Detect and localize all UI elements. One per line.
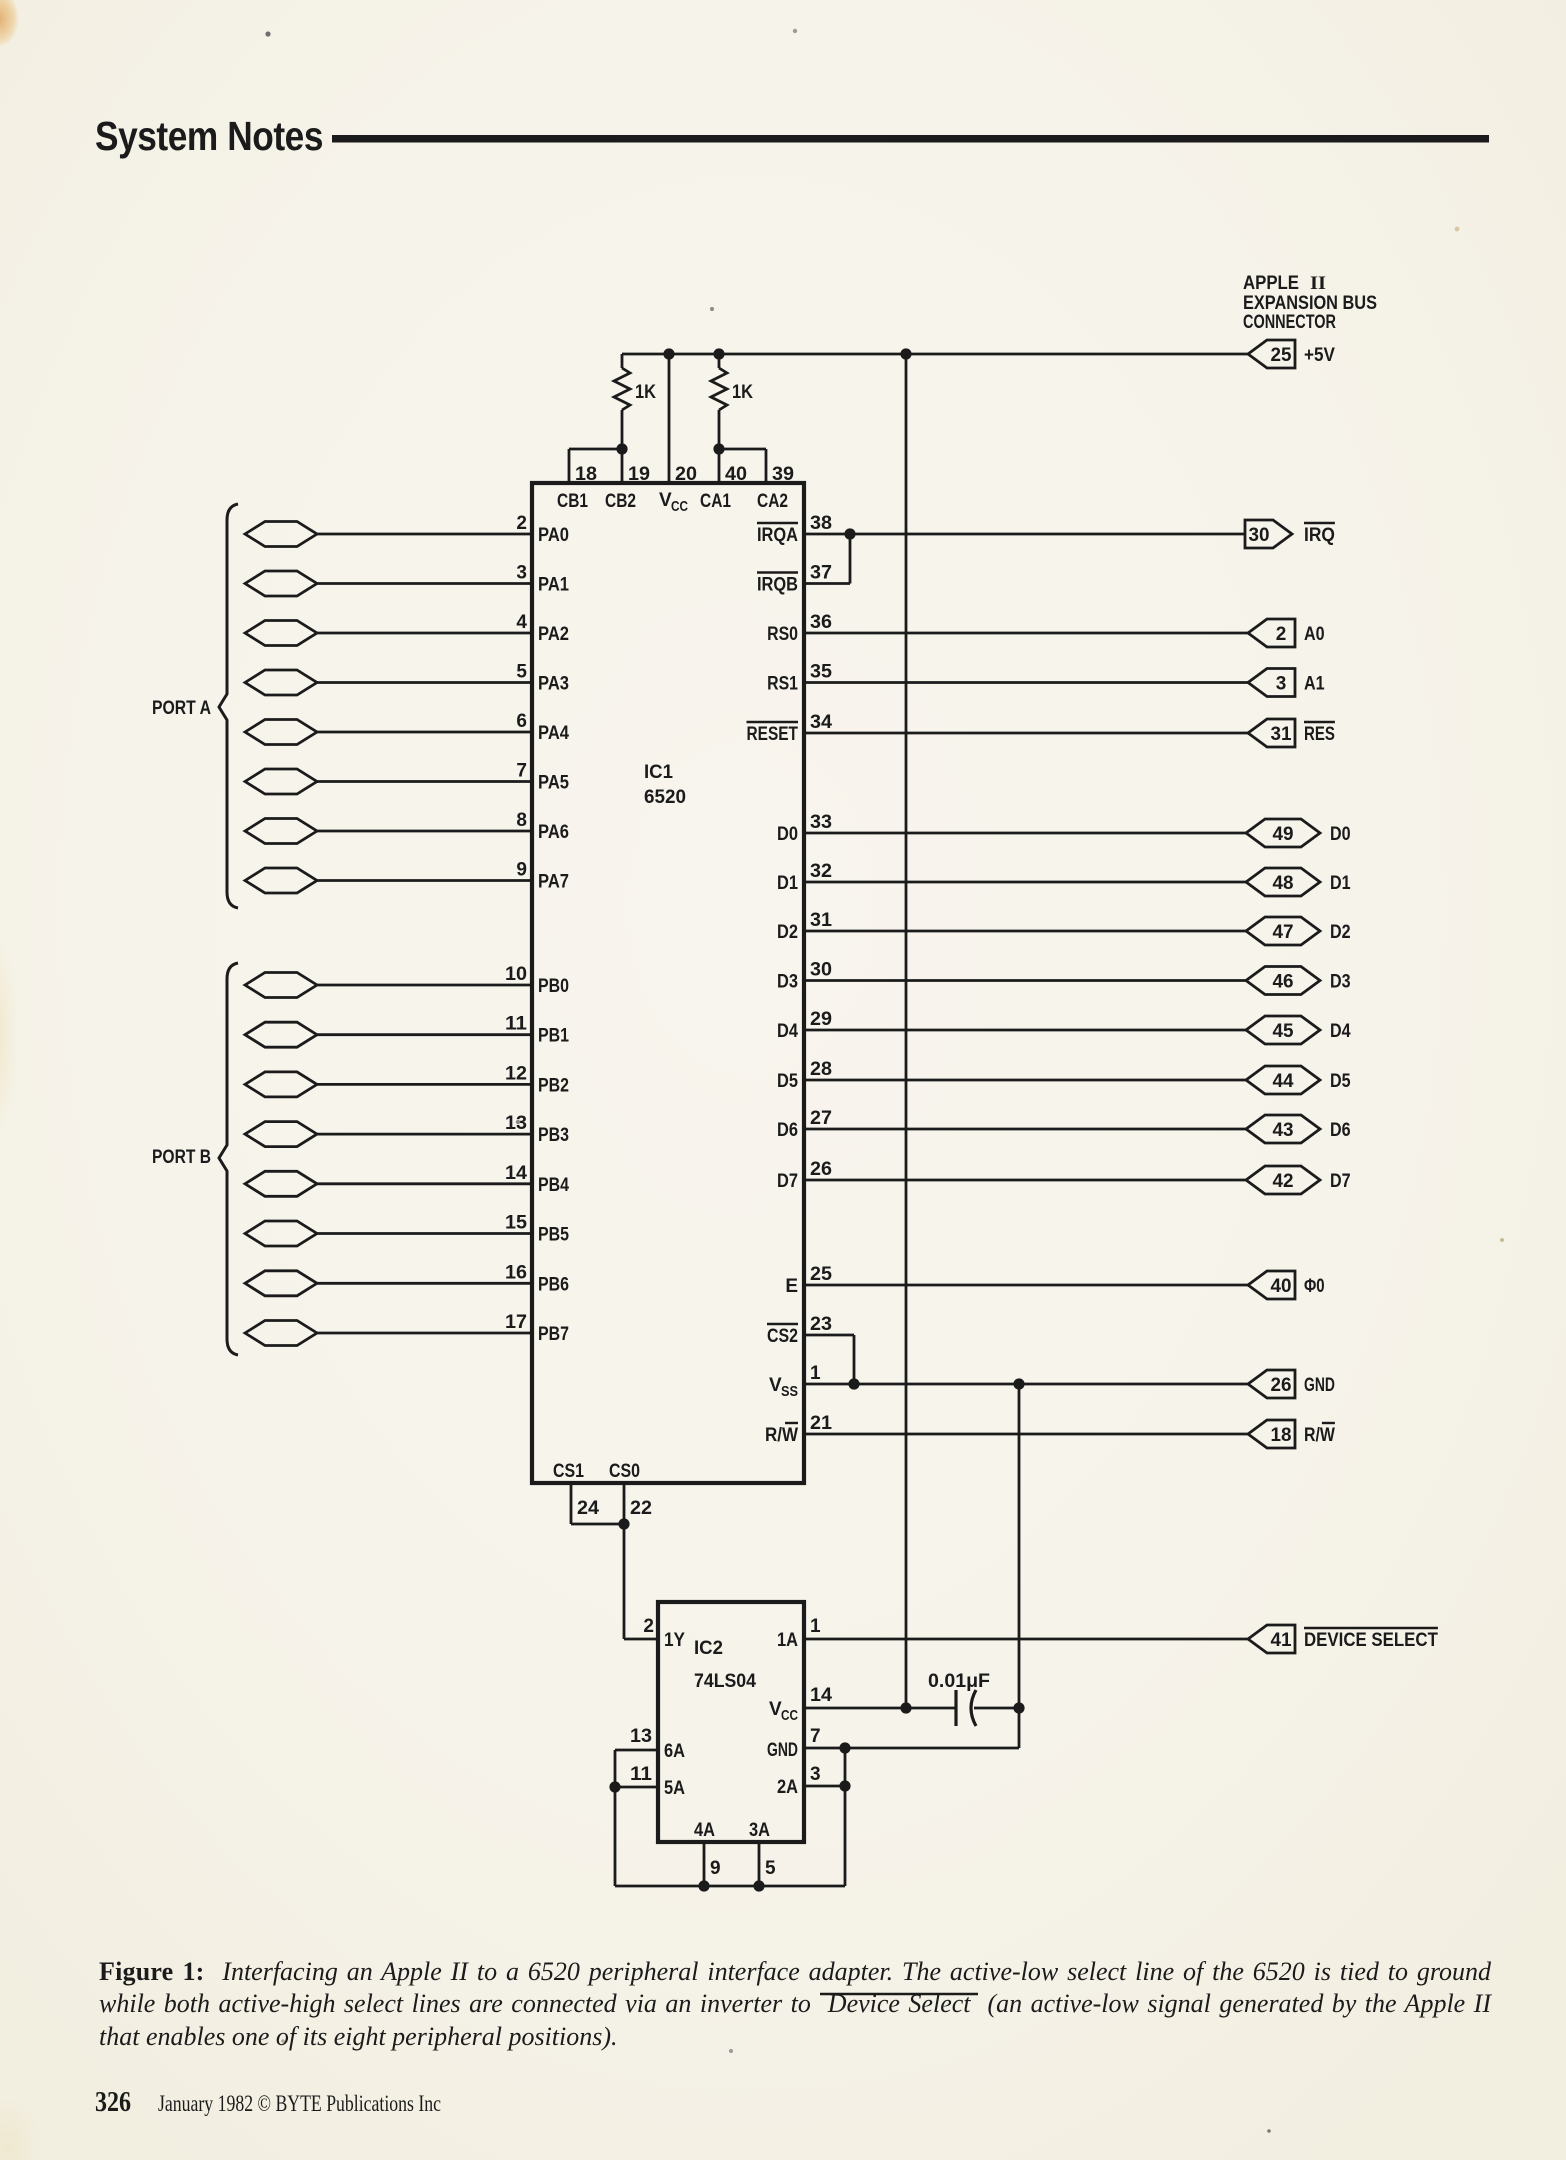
wire CS1-CS0 link (571, 1523, 624, 1526)
pin label 5A (664, 1778, 685, 1799)
svg-text:R/W: R/W (765, 1425, 798, 1446)
svg-text:46: 46 (1273, 972, 1294, 993)
svg-text:18: 18 (575, 464, 597, 485)
svg-text:5A: 5A (664, 1778, 685, 1799)
pin label PA1 (538, 575, 569, 596)
pin 9 stub (704, 1842, 721, 1886)
node GND/2A vertical junction (839, 1742, 850, 1753)
capacitor C 0.01uF (928, 1671, 1019, 1726)
pin label PA7 (538, 872, 569, 893)
svg-text:26: 26 (810, 1159, 832, 1180)
svg-text:3: 3 (1276, 674, 1287, 695)
svg-text:PB6: PB6 (538, 1274, 569, 1295)
pin 30 number (810, 960, 832, 981)
wire: right ground vertical (844, 1748, 847, 1886)
wire pin 23 CS2 to Vss (804, 1335, 854, 1384)
connector hexagon PA7 (245, 868, 317, 893)
pin label PB6 (538, 1274, 569, 1295)
connector hexagon PB4 (245, 1171, 317, 1196)
connector hexagon PB1 (245, 1022, 317, 1047)
connector 30 IRQ (expansion bus) (1245, 520, 1292, 548)
net label DEVICE SELECT (1304, 1628, 1438, 1651)
pin 8 number (516, 810, 527, 831)
svg-text:1K: 1K (635, 382, 656, 403)
svg-text:APPLE: APPLE (1243, 273, 1299, 294)
wire pin 11 5A (615, 1786, 658, 1789)
pin 1 number (810, 1616, 821, 1637)
pin label RESET (747, 722, 799, 745)
svg-text:E: E (785, 1276, 798, 1297)
svg-text:11: 11 (630, 1764, 652, 1785)
connector hexagon PA3 (245, 670, 317, 695)
pin label PB3 (538, 1125, 569, 1146)
node 4A junction (698, 1880, 709, 1891)
wire pin 26 D7 (804, 1179, 1246, 1182)
connector hexagon PA4 (245, 720, 317, 745)
node CS link junction (618, 1518, 629, 1529)
pin 3 number (516, 563, 527, 584)
pin 31 number (810, 910, 832, 931)
svg-text:RES: RES (1304, 724, 1335, 745)
pin 29 number (810, 1009, 832, 1030)
wire pin 31 D2 (804, 930, 1246, 933)
pin label PB2 (538, 1075, 569, 1096)
wire PA5 pin 7 (317, 780, 532, 783)
connector hexagon PA2 (245, 621, 317, 646)
connector 48 D1 (expansion bus) (1246, 868, 1320, 896)
svg-text:27: 27 (810, 1108, 832, 1129)
brace PORT A (219, 504, 238, 908)
svg-text:D2: D2 (1330, 922, 1351, 943)
pin 13 number (630, 1726, 652, 1747)
wire pin 33 D0 (804, 832, 1246, 835)
pin label D7 (777, 1171, 798, 1192)
net label Φ0 (1304, 1276, 1325, 1297)
pin label PB4 (538, 1175, 569, 1196)
pin label PB7 (538, 1324, 569, 1345)
svg-text:DEVICE SELECT: DEVICE SELECT (1304, 1630, 1438, 1651)
svg-text:PB7: PB7 (538, 1324, 569, 1345)
svg-text:4: 4 (516, 612, 527, 633)
svg-text:IC2: IC2 (694, 1638, 723, 1659)
pin label PB5 (538, 1225, 569, 1246)
pin 6 number (516, 711, 527, 732)
wire pin 1 Vss to GND connector (804, 1383, 1248, 1386)
connector hexagon PA1 (245, 571, 317, 596)
svg-text:43: 43 (1273, 1120, 1294, 1141)
svg-text:PA1: PA1 (538, 575, 569, 596)
wire PA2 pin 4 (317, 632, 532, 635)
net label IRQ (1304, 523, 1335, 546)
pin label PA4 (538, 723, 569, 744)
svg-text:45: 45 (1273, 1021, 1294, 1042)
svg-text:17: 17 (505, 1312, 527, 1333)
svg-text:13: 13 (630, 1726, 652, 1747)
pin 16 number (505, 1262, 527, 1283)
connector 25 +5V (expansion bus) (1248, 340, 1295, 368)
pin 38 number (810, 513, 832, 534)
svg-text:9: 9 (516, 860, 527, 881)
pin label CS0 (609, 1461, 640, 1482)
svg-text:2: 2 (1276, 624, 1287, 645)
pin 34 number (810, 712, 832, 733)
svg-text:January 1982 © BYTE Publicatio: January 1982 © BYTE Publications Inc (158, 2091, 441, 2116)
connector 42 D7 (expansion bus) (1246, 1166, 1320, 1194)
svg-text:24: 24 (577, 1498, 599, 1519)
svg-text:41: 41 (1271, 1630, 1292, 1651)
net label A0 (1304, 624, 1325, 645)
wire: bottom ground rail (615, 1885, 845, 1888)
pin label D6 (777, 1120, 798, 1141)
svg-text:26: 26 (1271, 1375, 1292, 1396)
svg-text:+5V: +5V (1304, 345, 1335, 366)
connector 45 D4 (expansion bus) (1246, 1016, 1320, 1044)
svg-text:IC1: IC1 (644, 762, 673, 783)
pin label R/W (765, 1423, 798, 1446)
node: rail/CA1 resistor junction (713, 348, 724, 359)
svg-text:49: 49 (1273, 824, 1294, 845)
wire pin 37 IRQB link (804, 534, 850, 584)
wire PB4 pin 14 (317, 1182, 532, 1185)
pin label 1Y (664, 1630, 685, 1651)
pin label Vcc of IC2 (769, 1699, 798, 1724)
connector hexagon PA5 (245, 769, 317, 794)
pin 10 number (505, 964, 527, 985)
svg-text:25: 25 (1271, 345, 1292, 366)
svg-text:5: 5 (516, 662, 527, 683)
pin label CS2 (767, 1324, 798, 1347)
svg-text:20: 20 (675, 464, 697, 485)
wire pin 36 RS0 (804, 632, 1248, 635)
svg-text:2: 2 (516, 513, 527, 534)
svg-text:9: 9 (710, 1858, 721, 1879)
svg-text:4A: 4A (694, 1820, 715, 1841)
wire pin 3 2A (804, 1785, 845, 1788)
svg-text:14: 14 (505, 1163, 527, 1184)
svg-text:PA6: PA6 (538, 822, 569, 843)
svg-text:31: 31 (810, 910, 832, 931)
pin 11 number (630, 1764, 652, 1785)
pin 23 number (810, 1314, 832, 1335)
pin label GND (767, 1740, 798, 1761)
header rule (332, 135, 1489, 143)
svg-text:GND: GND (767, 1740, 798, 1761)
svg-text:42: 42 (1273, 1171, 1294, 1192)
net label D0 (1330, 824, 1351, 845)
svg-text:PORT B: PORT B (152, 1147, 211, 1168)
svg-text:1A: 1A (777, 1630, 798, 1651)
pin label PA3 (538, 674, 569, 695)
pin 12 number (505, 1063, 527, 1084)
svg-text:PA7: PA7 (538, 872, 569, 893)
svg-text:2A: 2A (777, 1777, 798, 1798)
node Vss / bypass-cap drop junction (1013, 1378, 1024, 1389)
svg-text:3: 3 (516, 563, 527, 584)
pin label 4A (694, 1820, 715, 1841)
svg-text:PA5: PA5 (538, 773, 569, 794)
pin 28 number (810, 1059, 832, 1080)
svg-text:RESET: RESET (747, 724, 799, 745)
svg-text:23: 23 (810, 1314, 832, 1335)
svg-text:21: 21 (810, 1413, 832, 1434)
svg-text:CB2: CB2 (605, 491, 636, 512)
svg-text:D1: D1 (777, 873, 798, 894)
svg-text:D3: D3 (777, 972, 798, 993)
wire pin 13 6A (615, 1749, 658, 1752)
wire PB0 pin 10 (317, 984, 532, 987)
pin 17 number (505, 1312, 527, 1333)
wire pin 29 D4 (804, 1029, 1246, 1032)
pin label IRQA (757, 523, 798, 546)
pin label RS1 (767, 674, 798, 695)
pin label Vss (769, 1375, 798, 1400)
IC IC2 74LS04 hex-inverter body (658, 1602, 804, 1842)
svg-text:RS1: RS1 (767, 674, 798, 695)
svg-text:38: 38 (810, 513, 832, 534)
svg-text:PB3: PB3 (538, 1125, 569, 1146)
svg-text:PB4: PB4 (538, 1175, 569, 1196)
net label D6 (1330, 1120, 1351, 1141)
pin 15 number (505, 1213, 527, 1234)
net label D7 (1330, 1171, 1351, 1192)
pin 21 number (810, 1413, 832, 1434)
pin 4 number (516, 612, 527, 633)
pin label PA0 (538, 525, 569, 546)
wire PB1 pin 11 (317, 1033, 532, 1036)
node Vcc/+5V-drop junction (900, 1702, 911, 1713)
net label D5 (1330, 1071, 1351, 1092)
svg-text:CS0: CS0 (609, 1461, 640, 1482)
wire: Vss drop to ground row (1018, 1384, 1021, 1748)
svg-text:PORT A: PORT A (152, 698, 211, 719)
wire pin 7 GND row (804, 1747, 1019, 1750)
pin 22 CS0 stub (624, 1483, 652, 1524)
wire PA6 pin 8 (317, 830, 532, 833)
svg-text:30: 30 (1249, 525, 1270, 546)
svg-text:CC: CC (781, 1708, 798, 1724)
svg-text:32: 32 (810, 861, 832, 882)
pin 18 CB1 stub (557, 449, 597, 512)
pin 39 CA2 stub (757, 449, 794, 512)
svg-text:D6: D6 (777, 1120, 798, 1141)
wire: vertical +5V drop to IC2 pin 14 (905, 354, 908, 1708)
net label GND (1304, 1375, 1335, 1396)
svg-text:CS1: CS1 (553, 1461, 584, 1482)
pin label PB0 (538, 976, 569, 997)
svg-text:6: 6 (516, 711, 527, 732)
label: APPLE II EXPANSION BUS CONNECTOR (1243, 273, 1377, 333)
pin 32 number (810, 861, 832, 882)
svg-text:29: 29 (810, 1009, 832, 1030)
svg-text:10: 10 (505, 964, 527, 985)
pin label IRQB (757, 573, 798, 596)
pin 5 stub (759, 1842, 776, 1886)
svg-text:PB5: PB5 (538, 1225, 569, 1246)
svg-text:48: 48 (1273, 873, 1294, 894)
svg-text:IRQB: IRQB (757, 575, 798, 596)
pin 1 number (810, 1363, 821, 1384)
pin 2 number (516, 513, 527, 534)
node: rail drop to IC2 Vcc (900, 348, 911, 359)
title "System Notes" (95, 113, 323, 159)
svg-text:PA4: PA4 (538, 723, 569, 744)
svg-text:D7: D7 (777, 1171, 798, 1192)
wire pin 32 D1 (804, 881, 1246, 884)
pin 24 CS1 stub (571, 1483, 599, 1524)
svg-text:D6: D6 (1330, 1120, 1351, 1141)
svg-text:13: 13 (505, 1113, 527, 1134)
svg-text:19: 19 (628, 464, 650, 485)
svg-text:12: 12 (505, 1063, 527, 1084)
pin 35 number (810, 662, 832, 683)
svg-text:74LS04: 74LS04 (694, 1671, 756, 1692)
wire pin 30 D3 (804, 979, 1246, 982)
svg-text:EXPANSION BUS: EXPANSION BUS (1243, 293, 1377, 314)
svg-text:31: 31 (1271, 724, 1292, 745)
svg-text:7: 7 (516, 761, 527, 782)
wire PA7 pin 9 (317, 879, 532, 882)
svg-text:1Y: 1Y (664, 1630, 685, 1651)
connector 49 D0 (expansion bus) (1246, 819, 1320, 847)
svg-text:PA2: PA2 (538, 624, 569, 645)
pin 36 number (810, 612, 832, 633)
wire: pin18 link to CB2 node (569, 448, 622, 451)
svg-text:CC: CC (671, 499, 688, 515)
pin label 3A (749, 1820, 770, 1841)
connector hexagon PB5 (245, 1221, 317, 1246)
wire PA4 pin 6 (317, 731, 532, 734)
node CS2/Vss junction (848, 1378, 859, 1389)
wire PB5 pin 15 (317, 1232, 532, 1235)
page number 326 (95, 2087, 131, 2118)
pin label PA6 (538, 822, 569, 843)
svg-text:40: 40 (1271, 1276, 1292, 1297)
svg-text:II: II (1310, 273, 1326, 294)
svg-text:CONNECTOR: CONNECTOR (1243, 312, 1336, 333)
pin 14 number (505, 1163, 527, 1184)
pin 13 number (505, 1113, 527, 1134)
pin 2 number (IC2 1Y) (643, 1616, 654, 1637)
pin 27 number (810, 1108, 832, 1129)
wire pin 27 D6 (804, 1128, 1246, 1131)
svg-text:36: 36 (810, 612, 832, 633)
svg-text:18: 18 (1271, 1425, 1292, 1446)
pin label D1 (777, 873, 798, 894)
pin label D5 (777, 1071, 798, 1092)
svg-text:3A: 3A (749, 1820, 770, 1841)
connector 2 A0 (expansion bus) (1248, 619, 1295, 647)
svg-text:PB2: PB2 (538, 1075, 569, 1096)
connector 18 R/W (expansion bus) (1248, 1420, 1295, 1448)
scan specks (decorative) (265, 31, 270, 36)
pin 3 number (810, 1764, 821, 1785)
overline for Device Select in caption (820, 1993, 978, 1995)
svg-text:Φ0: Φ0 (1304, 1276, 1325, 1297)
svg-text:IRQA: IRQA (757, 525, 798, 546)
net label D1 (1330, 873, 1351, 894)
wire pin 28 D5 (804, 1079, 1246, 1082)
pin 26 number (810, 1159, 832, 1180)
node 2A junction (839, 1780, 850, 1791)
node 3A junction (753, 1880, 764, 1891)
svg-text:11: 11 (505, 1014, 527, 1035)
pin 25 number (810, 1264, 832, 1285)
pin 40 CA1 stub (700, 449, 747, 512)
svg-text:16: 16 (505, 1262, 527, 1283)
svg-text:PA0: PA0 (538, 525, 569, 546)
connector hexagon PB6 (245, 1271, 317, 1296)
pin label RS0 (767, 624, 798, 645)
pin 33 number (810, 812, 832, 833)
svg-text:GND: GND (1304, 1375, 1335, 1396)
node capacitor/ground-drop junction (1013, 1702, 1024, 1713)
svg-text:D0: D0 (777, 824, 798, 845)
net label R/W (1304, 1423, 1335, 1446)
svg-text:0.01μF: 0.01μF (928, 1671, 990, 1692)
node IRQA/IRQB junction (844, 528, 855, 539)
pin label 1A (777, 1630, 798, 1651)
connector 43 D6 (expansion bus) (1246, 1115, 1320, 1143)
svg-text:35: 35 (810, 662, 832, 683)
svg-text:D5: D5 (777, 1071, 798, 1092)
svg-text:D5: D5 (1330, 1071, 1351, 1092)
pin label 6A (664, 1741, 685, 1762)
net label A1 (1304, 674, 1325, 695)
svg-text:D3: D3 (1330, 972, 1351, 993)
connector hexagon PA6 (245, 819, 317, 844)
net label D2 (1330, 922, 1351, 943)
connector hexagon PB0 (245, 973, 317, 998)
IC IC1 6520 PIA body (532, 483, 804, 1483)
wire pin 38 IRQA (804, 533, 1245, 536)
connector 47 D2 (expansion bus) (1246, 917, 1320, 945)
connector 44 D5 (expansion bus) (1246, 1066, 1320, 1094)
svg-text:33: 33 (810, 812, 832, 833)
svg-text:40: 40 (725, 464, 747, 485)
svg-text:PB1: PB1 (538, 1026, 569, 1047)
pin label PA5 (538, 773, 569, 794)
svg-text:39: 39 (772, 464, 794, 485)
label PORT B (152, 1147, 211, 1168)
svg-text:System Notes: System Notes (95, 113, 323, 159)
svg-text:34: 34 (810, 712, 832, 733)
svg-text:CB1: CB1 (557, 491, 588, 512)
pin 11 number (505, 1014, 527, 1035)
svg-text:D0: D0 (1330, 824, 1351, 845)
pin label PB1 (538, 1026, 569, 1047)
svg-text:22: 22 (630, 1498, 652, 1519)
wire pin 21 R/W (804, 1433, 1248, 1436)
connector hexagon PB7 (245, 1321, 317, 1346)
wire PB7 pin 17 (317, 1332, 532, 1335)
connector hexagon PB2 (245, 1072, 317, 1097)
wire PB3 pin 13 (317, 1133, 532, 1136)
pin label D3 (777, 972, 798, 993)
svg-text:PB0: PB0 (538, 976, 569, 997)
svg-text:RS0: RS0 (767, 624, 798, 645)
node: junction CB2/resistor (616, 443, 627, 454)
svg-text:44: 44 (1273, 1071, 1294, 1092)
svg-text:2: 2 (643, 1616, 654, 1637)
svg-text:3: 3 (810, 1764, 821, 1785)
pin label D4 (777, 1021, 798, 1042)
pin label E (785, 1276, 798, 1297)
svg-text:6520: 6520 (644, 787, 686, 808)
pin label 2A (777, 1777, 798, 1798)
svg-text:A1: A1 (1304, 674, 1325, 695)
label Vcc of IC1 (659, 490, 688, 515)
wire PA0 pin 2 (317, 533, 532, 536)
